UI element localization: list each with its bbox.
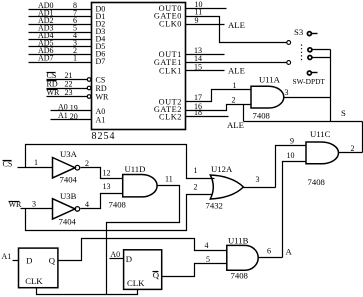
inversion bubble U3A (75, 165, 80, 170)
svg-text:10: 10 (287, 151, 295, 160)
8254 chip body (92, 3, 186, 130)
svg-text:U11B: U11B (228, 235, 249, 245)
wire WR to U3B (21, 208, 53, 210)
svg-text:3: 3 (256, 175, 260, 184)
wire GATE2 branch down to S rail (243, 105, 245, 122)
svg-text:U12A: U12A (211, 164, 233, 174)
svg-text:18: 18 (194, 108, 202, 117)
svg-text:D: D (26, 256, 32, 266)
wire WR to chip (47, 96, 88, 98)
switch pole contact GATE1 (287, 61, 291, 65)
wire RD to chip (47, 88, 88, 90)
svg-text:4: 4 (205, 241, 209, 250)
svg-text:2: 2 (351, 144, 355, 153)
svg-text:20: 20 (70, 112, 78, 121)
wire OUT0 pin 10 (186, 8, 227, 10)
svg-text:7408: 7408 (231, 271, 249, 281)
svg-text:7408: 7408 (253, 111, 271, 121)
svg-text:23: 23 (65, 88, 73, 97)
svg-text:CLK2: CLK2 (159, 113, 182, 122)
svg-text:ALE: ALE (228, 66, 245, 76)
wire mid2 to bus (313, 57, 331, 59)
wire CLK2 pin 18 (186, 116, 229, 118)
wire AD1 (29, 16, 92, 18)
svg-text:1: 1 (233, 81, 237, 90)
svg-text:D: D (126, 254, 132, 264)
svg-text:Q: Q (49, 256, 56, 266)
wire U3B out to U11D in13 (81, 194, 123, 209)
svg-text:S3: S3 (294, 27, 303, 37)
wire OUT2 pin 17 to U11A in1 (186, 90, 251, 102)
wire U11C output (339, 152, 363, 154)
svg-text:11: 11 (165, 175, 173, 184)
wire CLK0 pin 9 (186, 24, 225, 26)
wire U11C in9 from U12A out (276, 146, 307, 188)
svg-text:S: S (341, 108, 346, 118)
svg-text:13: 13 (103, 182, 111, 191)
svg-text:U11A: U11A (259, 75, 281, 85)
svg-text:2: 2 (232, 95, 236, 104)
wire WR branch down right to U12A in2 (26, 195, 213, 231)
gate U11A 7408 AND (251, 86, 284, 108)
svg-text:7404: 7404 (60, 175, 78, 185)
svg-text:A0: A0 (110, 250, 120, 259)
svg-text:CLK1: CLK1 (159, 66, 182, 75)
svg-text:4: 4 (85, 200, 89, 209)
svg-text:D7: D7 (96, 57, 106, 66)
wire U12A out (244, 187, 276, 189)
wire U11C in10 from U11B out (283, 162, 307, 258)
wire GATE1 pin 14 to switch pole (186, 62, 287, 64)
wire AD6 (29, 54, 92, 56)
svg-text:A1: A1 (2, 252, 12, 261)
wire GATE2 pin 16 to U11A in2 (186, 105, 251, 111)
svg-text:1: 1 (34, 158, 38, 167)
svg-text:3: 3 (32, 199, 36, 208)
svg-text:SW-DPDT: SW-DPDT (293, 77, 326, 86)
svg-text:9: 9 (290, 137, 294, 146)
svg-text:5: 5 (206, 255, 210, 264)
wire A1 to DFF1 D (13, 260, 19, 262)
svg-text:7404: 7404 (59, 216, 77, 226)
wire riser to U11C output (362, 122, 363, 153)
switch linkage dotted (301, 45, 303, 61)
wire U11D out to DFF clocks (107, 186, 180, 295)
switch throw contact bottom (307, 71, 311, 75)
wire AD3 (29, 32, 92, 34)
inversion bubble U3B (75, 207, 80, 212)
switch throw contact mid2 (308, 56, 312, 60)
wire CS to U3A (18, 167, 53, 169)
wire A0 to DFF2 D (110, 258, 124, 260)
wire AD4 (29, 39, 92, 41)
svg-text:A1: A1 (96, 115, 106, 124)
wire CLK1 pin 15 (186, 70, 225, 72)
svg-text:9: 9 (195, 16, 199, 25)
svg-text:7408: 7408 (109, 200, 127, 210)
wire AD0 (29, 9, 92, 11)
wire U11A out to switch rail (284, 97, 331, 99)
svg-text:A: A (286, 247, 293, 257)
svg-text:2: 2 (85, 159, 89, 168)
gate U11D 7408 AND (123, 175, 157, 197)
svg-text:U11D: U11D (125, 164, 146, 174)
svg-text:7408: 7408 (308, 177, 326, 187)
DFF2 box (124, 250, 162, 290)
gate U11C 7408 AND (306, 142, 339, 164)
svg-text:ALE: ALE (227, 120, 244, 130)
inversion bubble WR (87, 95, 91, 99)
wire switch bus down to S rail (330, 50, 332, 122)
svg-text:2: 2 (194, 183, 198, 192)
svg-text:U3A: U3A (60, 149, 78, 159)
gate U3A 7404 inverter (53, 158, 76, 178)
inversion bubble CS (87, 78, 91, 82)
wire AD7 (29, 62, 92, 64)
switch pole contact GATE0 (287, 41, 291, 45)
svg-text:12: 12 (103, 169, 111, 178)
svg-text:7432: 7432 (206, 201, 223, 211)
svg-text:17: 17 (194, 93, 202, 102)
svg-text:CLK0: CLK0 (159, 20, 182, 29)
svg-text:CLK: CLK (127, 278, 145, 288)
wire OUT1 pin 13 (186, 54, 225, 56)
wire U11B out6 (259, 257, 283, 259)
wire CS to chip (47, 79, 88, 81)
wire GATE0 pin 11 to switch pole (186, 17, 287, 43)
wire AD2 (29, 24, 92, 26)
svg-text:1: 1 (73, 53, 77, 62)
wire A0 to chip (51, 110, 92, 112)
svg-text:CLK: CLK (25, 276, 43, 286)
wire CLK bus under DFFs (37, 288, 138, 295)
switch throw contact mid1 (308, 48, 312, 52)
svg-text:6: 6 (267, 247, 271, 256)
wire U3A out to U11D in12 (81, 168, 123, 179)
wire S rail horizontal (244, 121, 363, 123)
inversion bubble RD (87, 86, 91, 90)
wire AD5 (29, 46, 92, 48)
gate U12A 7432 OR (210, 175, 243, 199)
switch throw contact top (307, 32, 311, 36)
wire mid1 to bus (313, 49, 331, 51)
DFF1 box (19, 248, 58, 288)
svg-text:3: 3 (285, 88, 289, 97)
wire DFF1 Q to U11B in4 (58, 239, 227, 261)
svg-text:AD7: AD7 (38, 53, 54, 62)
svg-text:A1: A1 (58, 111, 68, 120)
svg-text:U11C: U11C (310, 129, 331, 139)
svg-text:8254: 8254 (92, 131, 116, 142)
wire DFF2 Qbar to U11B in5 (162, 264, 227, 277)
wire A1 to chip (51, 119, 92, 121)
svg-text:ALE: ALE (228, 20, 245, 30)
wire CS branch up and right to U12A in1 (26, 145, 215, 179)
svg-text:U3B: U3B (60, 191, 77, 201)
svg-text:1: 1 (194, 166, 198, 175)
gate U3B 7404 inverter (53, 199, 76, 219)
svg-text:WR: WR (96, 92, 110, 101)
gate U11B 7408 AND (227, 245, 258, 270)
